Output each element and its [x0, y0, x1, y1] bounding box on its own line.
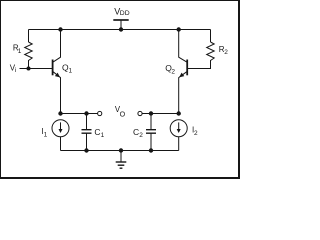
transistor Q1 base bar	[52, 60, 54, 76]
label VO	[115, 105, 126, 119]
svg-text:1: 1	[101, 132, 105, 139]
wire: Vi input line	[20, 68, 53, 70]
wire: bottom rail	[61, 150, 179, 152]
svg-text:1: 1	[18, 48, 22, 55]
current source I1 arrow	[60, 122, 62, 129]
node: Q2 emitter / I2 junction dot	[177, 111, 181, 115]
wire: VDD top rail	[29, 29, 211, 31]
svg-text:2: 2	[171, 68, 175, 75]
ground stem	[120, 151, 122, 162]
ground bars	[116, 161, 127, 163]
capacitor C2 plates	[146, 130, 156, 134]
label C2	[133, 127, 143, 139]
current source I2 circle	[170, 120, 187, 137]
wire: output line right	[142, 113, 179, 115]
wire: output line left	[61, 113, 98, 115]
resistor R2	[207, 42, 215, 61]
svg-text:i: i	[15, 67, 16, 74]
current source I1 circle	[52, 120, 69, 137]
svg-text:1: 1	[69, 68, 73, 75]
frame top	[0, 0, 240, 2]
terminal: VO left open circle	[98, 111, 102, 115]
node: ground junction dot	[119, 148, 123, 152]
node: C2 bottom rail dot	[149, 148, 153, 152]
capacitor C1 top lead	[86, 114, 88, 130]
node: C1 bottom rail dot	[84, 148, 88, 152]
transistor Q1 collector	[53, 30, 60, 62]
transistor Q1 emitter	[53, 72, 60, 114]
capacitor C2 top lead	[150, 114, 152, 130]
power VDD stem	[120, 20, 122, 30]
svg-text:DD: DD	[120, 10, 130, 17]
transistor Q1 emitter arrow	[55, 73, 60, 78]
wire: I1 bottom lead	[60, 137, 62, 151]
label C1	[94, 127, 104, 139]
label Q1	[62, 63, 73, 75]
transistor Q2 emitter arrow	[179, 73, 184, 78]
frame bottom	[0, 177, 240, 179]
terminal: VO right open circle	[138, 111, 142, 115]
svg-text:2: 2	[139, 132, 143, 139]
node: Q1 collector rail dot	[58, 27, 62, 31]
capacitor C1 bottom lead	[86, 133, 88, 150]
node: Q1 emitter / I1 junction dot	[58, 111, 62, 115]
resistor R1	[25, 42, 33, 61]
wire: R2 bottom to Q2 base	[188, 61, 211, 69]
power VDD symbol bar	[113, 19, 128, 21]
transistor Q2 base bar	[186, 60, 188, 76]
transistor Q2 emitter	[179, 72, 187, 114]
label I2	[192, 126, 198, 137]
node: VDD rail dot	[119, 27, 123, 31]
capacitor C2 bottom lead	[150, 133, 152, 150]
node: Q2 collector rail dot	[177, 27, 181, 31]
node: Vi/R1 junction dot	[27, 67, 31, 71]
wire: rail corner down to R2	[210, 30, 212, 43]
svg-text:2: 2	[224, 49, 228, 56]
node: C2 top junction dot	[149, 111, 153, 115]
label Q2	[165, 63, 175, 75]
label R1	[13, 44, 22, 55]
transistor Q2 collector	[179, 30, 187, 62]
svg-text:1: 1	[44, 132, 48, 139]
current source I2 arrow	[178, 122, 180, 129]
svg-text:O: O	[120, 110, 126, 119]
capacitor C1 plates	[82, 130, 92, 134]
frame right	[238, 0, 240, 179]
wire: I2 bottom lead	[178, 137, 180, 151]
label Vi	[10, 64, 17, 75]
label VDD	[114, 6, 129, 17]
node: C1 top junction dot	[84, 111, 88, 115]
label I1	[41, 127, 47, 139]
wire: R1 bottom lead to Vi node	[28, 61, 30, 69]
svg-text:2: 2	[194, 130, 198, 137]
wire: rail corner down to R1	[28, 30, 30, 43]
label R2	[219, 45, 228, 56]
frame left	[0, 0, 2, 179]
